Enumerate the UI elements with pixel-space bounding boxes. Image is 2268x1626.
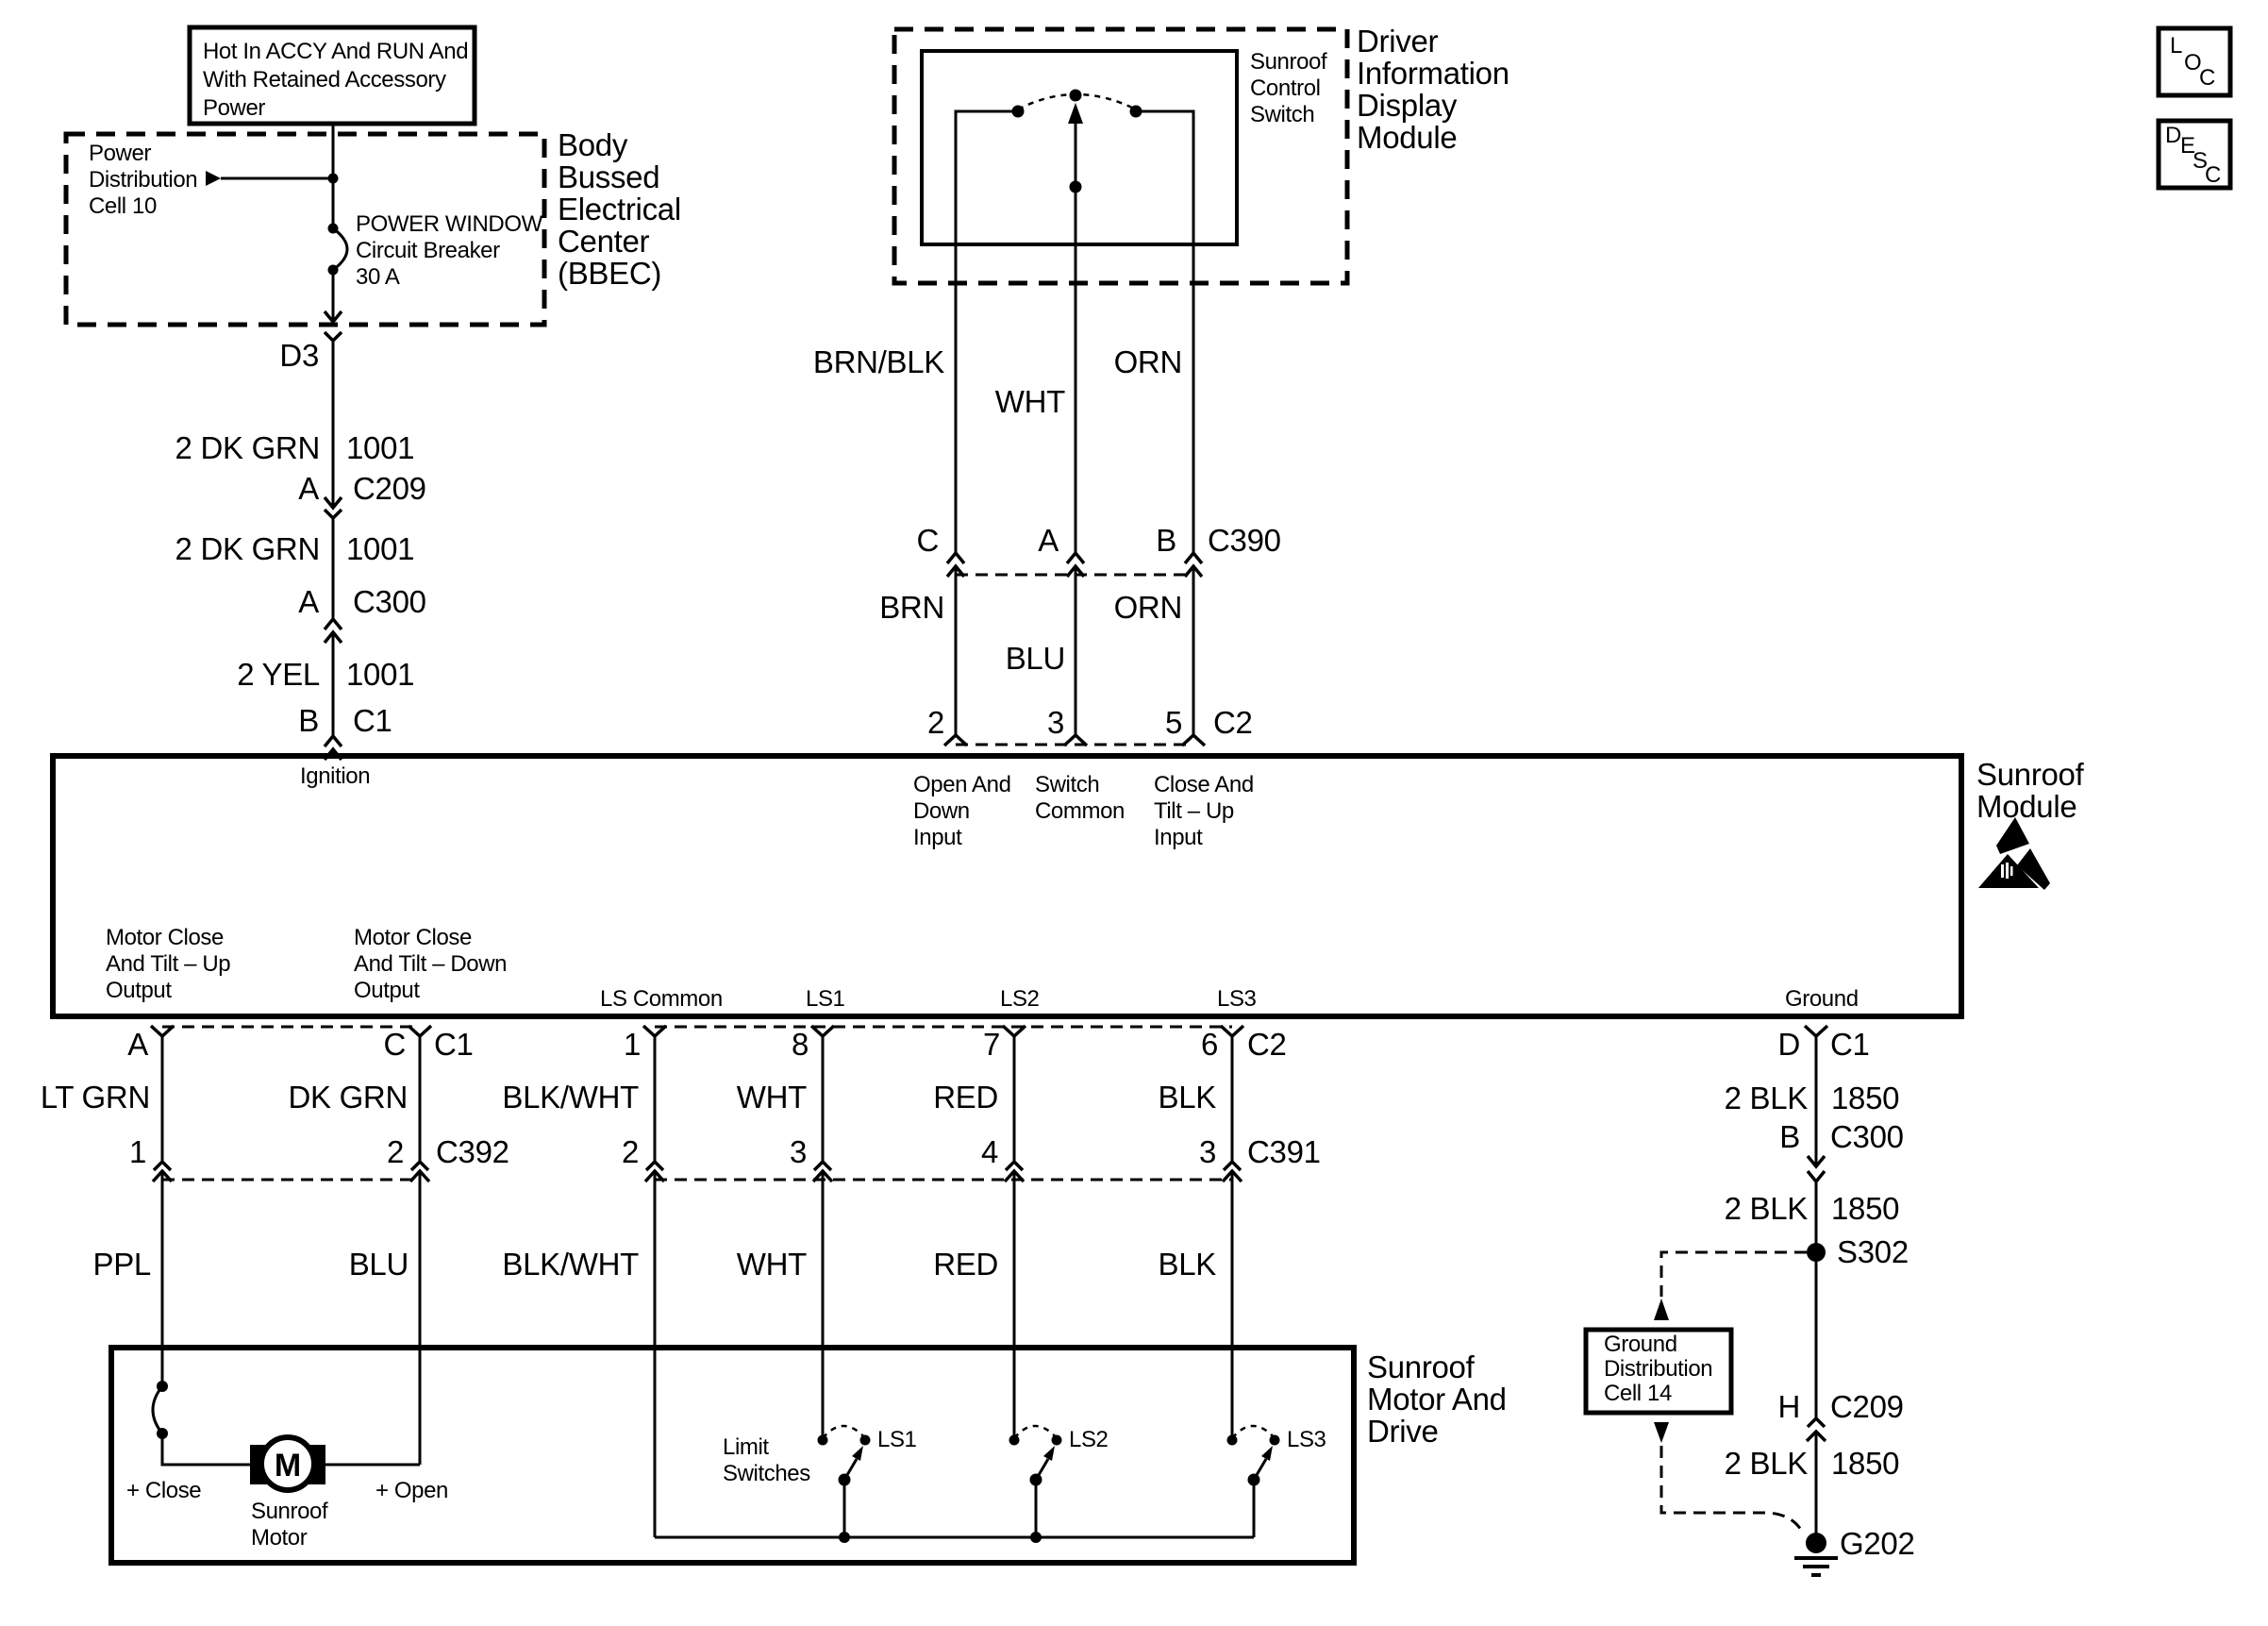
dashed connector line C392: [162, 1179, 420, 1182]
label Sunroof Motor And Drive: [1367, 1349, 1507, 1449]
svg-text:Distribution: Distribution: [89, 167, 197, 193]
svg-text:Power: Power: [89, 141, 151, 166]
arrow down at BBEC exit: [325, 311, 342, 322]
svg-text:M: M: [275, 1448, 301, 1484]
power distribution arrow: [206, 171, 221, 186]
svg-text:C390: C390: [1208, 523, 1281, 558]
svg-text:C1: C1: [353, 703, 392, 738]
svg-text:8: 8: [792, 1027, 809, 1062]
wire C (BRN/BLK): [956, 111, 1018, 553]
svg-text:LS3: LS3: [1287, 1427, 1326, 1452]
label Driver Information Display Module: [1357, 24, 1509, 155]
Sunroof Motor And Drive box: [111, 1348, 1354, 1563]
svg-text:ORN: ORN: [1114, 344, 1182, 379]
svg-text:2: 2: [387, 1134, 404, 1169]
svg-text:BRN: BRN: [879, 590, 944, 625]
svg-text:Cell 10: Cell 10: [89, 193, 157, 219]
dashed link to ground distribution: [1661, 1252, 1807, 1297]
label Power Distribution Cell 10: [89, 141, 197, 219]
svg-text:1001: 1001: [346, 531, 414, 566]
svg-text:Ground: Ground: [1785, 986, 1859, 1012]
svg-text:POWER WINDOW: POWER WINDOW: [356, 211, 543, 237]
limit switch LS3: [1227, 1426, 1326, 1537]
svg-text:Distribution: Distribution: [1604, 1356, 1712, 1382]
svg-text:3: 3: [1199, 1134, 1216, 1169]
label Body Bussed Electrical Center (BBEC): [558, 127, 681, 291]
svg-text:D3: D3: [279, 338, 319, 373]
svg-text:LS1: LS1: [877, 1427, 917, 1452]
svg-text:C: C: [2199, 65, 2215, 91]
svg-text:2: 2: [927, 705, 944, 740]
svg-text:1850: 1850: [1831, 1191, 1899, 1226]
svg-text:Switches: Switches: [723, 1461, 810, 1486]
Ground Distribution Cell 14 box: [1586, 1330, 1731, 1413]
svg-text:Down: Down: [913, 798, 970, 824]
svg-text:A: A: [298, 584, 319, 619]
svg-text:PPL: PPL: [93, 1247, 151, 1282]
svg-text:Motor: Motor: [251, 1525, 308, 1551]
DESC box: [2159, 121, 2230, 188]
svg-text:LS2: LS2: [1069, 1427, 1109, 1452]
svg-text:Control: Control: [1250, 75, 1321, 101]
svg-text:D: D: [2165, 123, 2181, 148]
svg-text:DK GRN: DK GRN: [288, 1080, 408, 1115]
dashed link to G202: [1661, 1446, 1801, 1530]
wire stub C1 to module: [332, 749, 335, 756]
svg-text:2 DK GRN: 2 DK GRN: [175, 531, 320, 566]
ground G202: [1794, 1526, 1915, 1575]
wire from arrow to trunk: [221, 177, 333, 180]
svg-text:WHT: WHT: [737, 1247, 807, 1282]
svg-text:LS2: LS2: [1000, 986, 1040, 1012]
svg-text:Power: Power: [203, 95, 265, 121]
svg-text:Center: Center: [558, 224, 650, 259]
svg-text:Switch: Switch: [1035, 772, 1099, 797]
svg-text:Switch: Switch: [1250, 102, 1314, 127]
wires below module: [161, 1036, 164, 1162]
svg-text:Hot In ACCY And RUN And: Hot In ACCY And RUN And: [203, 39, 468, 64]
svg-text:RED: RED: [933, 1080, 998, 1115]
svg-text:S302: S302: [1837, 1234, 1909, 1269]
svg-text:A: A: [1038, 523, 1059, 558]
svg-text:Open And: Open And: [913, 772, 1011, 797]
wire B (ORN): [1136, 111, 1193, 553]
wire trunk C300 to C1: [332, 632, 335, 736]
wire from motor to BLU wire: [325, 1464, 420, 1467]
node junction at trunk: [328, 174, 339, 184]
svg-text:A: A: [298, 471, 319, 506]
svg-text:B: B: [1156, 523, 1176, 558]
svg-text:C1: C1: [1830, 1027, 1870, 1062]
svg-text:Ignition: Ignition: [300, 763, 370, 789]
svg-text:H: H: [1777, 1389, 1800, 1424]
svg-text:+ Open: + Open: [375, 1478, 448, 1503]
module pin label Motor Close And Tilt-Up Output: [106, 925, 230, 1003]
svg-text:30 A: 30 A: [356, 264, 400, 290]
svg-text:C209: C209: [353, 471, 426, 506]
svg-text:Common: Common: [1035, 798, 1125, 824]
svg-text:Ground: Ground: [1604, 1332, 1677, 1357]
wire from switch to motor: [162, 1433, 250, 1465]
svg-text:RED: RED: [933, 1247, 998, 1282]
svg-text:2 BLK: 2 BLK: [1725, 1446, 1809, 1481]
svg-text:1001: 1001: [346, 657, 414, 692]
svg-text:Input: Input: [1154, 825, 1203, 850]
svg-text:C: C: [383, 1027, 406, 1062]
svg-text:C392: C392: [436, 1134, 509, 1169]
svg-text:Motor Close: Motor Close: [106, 925, 224, 950]
LOC box: [2159, 28, 2230, 95]
close switch contacts: [157, 1381, 168, 1392]
module pin label Close And Tilt-Up Input: [1154, 772, 1254, 850]
Driver Information Display Module dashed box: [894, 29, 1347, 283]
svg-text:C2: C2: [1213, 705, 1253, 740]
svg-text:Input: Input: [913, 825, 962, 850]
svg-text:4: 4: [981, 1134, 998, 1169]
svg-text:A: A: [127, 1027, 148, 1062]
label Sunroof Control Switch: [1250, 49, 1327, 127]
label Limit Switches: [723, 1434, 810, 1486]
chevrons C390: [947, 553, 964, 563]
svg-text:C300: C300: [353, 584, 426, 619]
svg-text:B: B: [298, 703, 319, 738]
svg-text:Motor Close: Motor Close: [354, 925, 472, 950]
dashed connector line C1 bottom: [162, 1026, 420, 1029]
svg-text:3: 3: [790, 1134, 807, 1169]
svg-text:Driver: Driver: [1357, 24, 1439, 59]
module pin label Open And Down Input: [913, 772, 1011, 850]
switch common wire A with arrow: [1075, 124, 1077, 553]
LS common bus: [655, 1536, 1254, 1539]
svg-text:5: 5: [1165, 705, 1182, 740]
arrow below ground distribution box: [1654, 1422, 1669, 1443]
contact node right: [1130, 106, 1142, 118]
svg-text:2 BLK: 2 BLK: [1725, 1081, 1809, 1115]
svg-text:Module: Module: [1976, 789, 2076, 824]
svg-text:Module: Module: [1357, 120, 1457, 155]
svg-text:C209: C209: [1830, 1389, 1904, 1424]
bottom connector forks row 1: [151, 1026, 174, 1036]
svg-text:LS3: LS3: [1217, 986, 1257, 1012]
chevrons C392/C391: [154, 1162, 171, 1170]
svg-text:Drive: Drive: [1367, 1414, 1439, 1449]
dashed connector line C390: [956, 574, 1193, 577]
wire trunk D3 to C209: [332, 341, 335, 507]
svg-text:+ Close: + Close: [126, 1478, 201, 1503]
svg-text:Close And: Close And: [1154, 772, 1254, 797]
svg-text:Electrical: Electrical: [558, 192, 681, 226]
svg-text:LS Common: LS Common: [600, 986, 723, 1012]
circuit breaker POWER WINDOW 30 A: [328, 211, 543, 290]
sunroof motor M: [250, 1437, 325, 1490]
svg-text:Sunroof: Sunroof: [1976, 757, 2085, 792]
svg-text:Sunroof: Sunroof: [1367, 1349, 1476, 1384]
wire breaker to BBEC box exit arrow: [332, 270, 335, 321]
sunroof control switch solid box: [922, 51, 1237, 244]
svg-text:BLK: BLK: [1159, 1247, 1217, 1282]
svg-text:BRN/BLK: BRN/BLK: [813, 344, 944, 379]
svg-text:LS1: LS1: [806, 986, 845, 1012]
svg-text:6: 6: [1201, 1027, 1218, 1062]
svg-text:WHT: WHT: [737, 1080, 807, 1115]
svg-text:1850: 1850: [1831, 1081, 1899, 1115]
svg-text:D: D: [1777, 1027, 1800, 1062]
svg-text:Motor And: Motor And: [1367, 1382, 1507, 1416]
module pin label Motor Close And Tilt-Down Output: [354, 925, 507, 1003]
svg-text:G202: G202: [1840, 1526, 1915, 1561]
svg-text:Bussed: Bussed: [558, 159, 659, 194]
label Sunroof Motor: [251, 1499, 328, 1551]
svg-text:2 DK GRN: 2 DK GRN: [175, 430, 320, 465]
svg-text:And Tilt – Down: And Tilt – Down: [354, 951, 507, 977]
dashed connector line C2 bottom: [655, 1026, 1232, 1029]
Sunroof Module box: [53, 756, 1961, 1016]
BBEC dashed box: [66, 134, 544, 325]
svg-text:(BBEC): (BBEC): [558, 256, 661, 291]
svg-text:Body: Body: [558, 127, 628, 162]
svg-text:BLU: BLU: [349, 1247, 409, 1282]
svg-text:1850: 1850: [1831, 1446, 1899, 1481]
svg-text:1001: 1001: [346, 430, 414, 465]
svg-text:3: 3: [1047, 705, 1064, 740]
svg-text:Display: Display: [1357, 88, 1458, 123]
svg-text:Tilt – Up: Tilt – Up: [1154, 798, 1234, 824]
svg-text:C300: C300: [1830, 1119, 1904, 1154]
svg-text:Output: Output: [354, 978, 420, 1003]
limit switch LS2: [1009, 1426, 1109, 1537]
bus junction dots: [839, 1532, 850, 1543]
svg-text:BLK/WHT: BLK/WHT: [502, 1080, 639, 1115]
contact node left: [1012, 106, 1025, 118]
svg-text:Limit: Limit: [723, 1434, 769, 1460]
ESD symbol: [1978, 817, 2050, 890]
svg-text:C: C: [2205, 162, 2221, 188]
splice S302: [1807, 1243, 1826, 1262]
dashed connector line C391: [655, 1179, 1232, 1182]
svg-text:With Retained Accessory: With Retained Accessory: [203, 67, 446, 92]
svg-text:Information: Information: [1357, 56, 1509, 91]
svg-text:Cell 14: Cell 14: [1604, 1381, 1672, 1406]
svg-text:Sunroof: Sunroof: [251, 1499, 328, 1524]
svg-text:L: L: [2170, 33, 2182, 59]
module pin label Switch Common: [1035, 772, 1125, 824]
limit switch LS1: [818, 1426, 917, 1537]
svg-text:2 BLK: 2 BLK: [1725, 1191, 1809, 1226]
svg-text:Output: Output: [106, 978, 172, 1003]
wire trunk from Hot box to breaker: [332, 122, 335, 228]
svg-text:And Tilt – Up: And Tilt – Up: [106, 951, 230, 977]
svg-text:C: C: [916, 523, 939, 558]
svg-text:C1: C1: [434, 1027, 474, 1062]
svg-text:ORN: ORN: [1114, 590, 1182, 625]
power feed label box "Hot In ACCY And RUN And With Retained Accessory Power": [190, 27, 475, 124]
svg-text:7: 7: [983, 1027, 1000, 1062]
wire trunk C209 to C300: [332, 518, 335, 619]
svg-text:WHT: WHT: [995, 384, 1065, 419]
svg-text:C391: C391: [1247, 1134, 1321, 1169]
svg-text:Sunroof: Sunroof: [1250, 49, 1327, 75]
connector cup below dashed box: [325, 332, 342, 341]
switch wiper dashed arc: [1018, 94, 1136, 109]
svg-text:LT GRN: LT GRN: [41, 1080, 150, 1115]
svg-text:1: 1: [129, 1134, 146, 1169]
svg-text:BLK: BLK: [1159, 1080, 1217, 1115]
svg-text:B: B: [1779, 1119, 1800, 1154]
svg-text:2 YEL: 2 YEL: [237, 657, 320, 692]
svg-text:BLU: BLU: [1006, 641, 1065, 676]
svg-text:BLK/WHT: BLK/WHT: [502, 1247, 639, 1282]
svg-text:1: 1: [624, 1027, 641, 1062]
svg-text:C2: C2: [1247, 1027, 1287, 1062]
svg-text:2: 2: [622, 1134, 639, 1169]
svg-text:Circuit Breaker: Circuit Breaker: [356, 238, 500, 263]
